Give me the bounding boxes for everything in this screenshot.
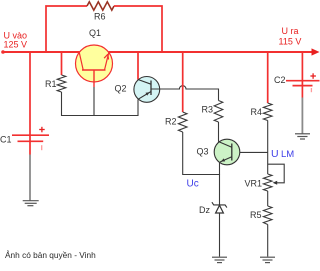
wire Dz bottom <box>219 213 221 257</box>
svg-text:Uc: Uc <box>187 179 199 190</box>
wire R2 bottom to Dz node <box>183 132 220 175</box>
svg-text:Q1: Q1 <box>89 28 101 38</box>
potentiometer VR1 <box>263 164 284 191</box>
wire C1 branch (red) <box>29 52 31 141</box>
wire R4 bottom through U LM node to VR1 <box>267 121 269 175</box>
svg-text:Q2: Q2 <box>115 84 127 94</box>
svg-text:115 V: 115 V <box>279 37 302 47</box>
wire VR1 to R5 <box>267 191 269 206</box>
svg-text:R6: R6 <box>94 12 106 22</box>
wire R6 loop right leg <box>114 6 162 52</box>
wire C1 red stub <box>29 141 31 154</box>
wire Q3 base to VR1 node <box>240 151 268 153</box>
wire main rail right segment <box>109 51 313 53</box>
wire Dz top <box>219 175 221 205</box>
ground (C2) <box>295 134 310 139</box>
transistor Q3 <box>214 139 240 165</box>
wire Q2 base to R3 with hop over R2 branch <box>151 86 219 101</box>
svg-text:C2: C2 <box>274 75 286 85</box>
wire C1 to ground (gray) <box>29 155 31 201</box>
svg-text:R4: R4 <box>251 107 263 117</box>
wire R6 loop left leg <box>46 6 87 52</box>
resistor R2 <box>178 112 187 132</box>
node input terminal <box>1 50 5 54</box>
svg-text:R2: R2 <box>165 117 177 127</box>
wire Q2 emitter lead <box>137 99 139 116</box>
wire C2 branch (red) <box>301 52 303 86</box>
ground (Dz) <box>212 257 227 262</box>
wire main rail left segment <box>2 51 80 53</box>
wire R1 top lead (red) <box>61 52 63 75</box>
svg-text:R3: R3 <box>202 105 214 115</box>
transistor Q2 <box>134 77 160 103</box>
resistor R3 <box>214 101 223 123</box>
wire C2 red stub <box>301 86 303 98</box>
transistor Q1 <box>76 45 113 87</box>
wire R2 branch (red) <box>182 52 184 112</box>
resistor R5 <box>263 206 272 225</box>
resistor R6 <box>87 2 114 10</box>
diode Dz (zener) <box>212 202 227 213</box>
resistor R4 <box>263 103 272 121</box>
svg-text:C1: C1 <box>0 135 12 145</box>
svg-text:LM: LM <box>281 149 294 160</box>
capacitor C2 <box>286 73 320 92</box>
svg-text:R1: R1 <box>45 79 57 89</box>
ground (C1) <box>23 201 39 206</box>
wire R4 branch (red) <box>267 52 269 103</box>
svg-text:VR1: VR1 <box>245 179 263 189</box>
wire bottom bus R1-Q1-Q2 <box>62 115 139 117</box>
wire C2 to ground (gray) <box>301 98 303 134</box>
svg-text:Ảnh có bản quyền - Vinh: Ảnh có bản quyền - Vinh <box>5 249 96 260</box>
wire Q1 base lead (black) <box>93 87 95 116</box>
ground (R5) <box>260 257 275 262</box>
svg-text:Dz: Dz <box>199 205 210 215</box>
output arrow <box>312 48 320 55</box>
wire Q2 collector branch (red) <box>137 52 139 80</box>
svg-text:Q3: Q3 <box>197 147 209 157</box>
svg-text:125 V: 125 V <box>4 40 28 50</box>
wire R1 bottom lead <box>61 92 63 116</box>
svg-text:U ra: U ra <box>282 26 299 36</box>
wire R3 bottom to Q3 collector <box>218 122 220 142</box>
resistor R1 <box>57 75 66 92</box>
svg-text:U: U <box>271 148 279 160</box>
capacitor C1 <box>12 127 49 150</box>
svg-text:R5: R5 <box>250 210 262 220</box>
wire R5 bottom <box>267 225 269 257</box>
wire Q3 emitter down <box>219 163 221 176</box>
